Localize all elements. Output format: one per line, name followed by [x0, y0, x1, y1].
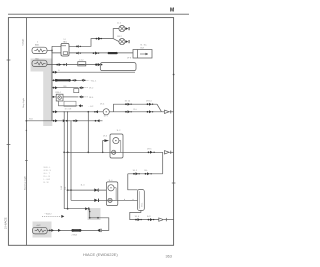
- harness vertical 1: [63, 112, 65, 209]
- branch row 5 illumination lamp: [52, 96, 56, 98]
- connector pair on relay upper pin: [76, 45, 81, 48]
- stop light through row: [65, 151, 162, 153]
- row1 resistor box: [78, 62, 86, 66]
- row3 end connector: [81, 79, 85, 82]
- bulb L2 connector: [126, 40, 130, 43]
- fuse F2 TAIL on junction block: [32, 60, 47, 66]
- bottom row pair 2: [148, 218, 155, 221]
- svg-text:2 HIACE: 2 HIACE: [4, 217, 8, 229]
- branch row 3 wire: [52, 79, 81, 81]
- LH inner wire: [118, 141, 121, 153]
- node on left bus A: [26, 120, 28, 122]
- high mount stop bulb: [103, 109, 109, 115]
- node on left bus B: [26, 130, 27, 131]
- rail upper pair 1: [125, 103, 132, 106]
- through line tick marks: [124, 199, 126, 200]
- svg-text:2 W-B: 2 W-B: [72, 235, 78, 237]
- wire FL1 to relay: [47, 46, 61, 53]
- branch row 1 tail feed wire: [47, 64, 100, 66]
- back-up row from harness: [64, 208, 90, 210]
- fusible link FL1: [32, 47, 47, 53]
- taillight relay R1: [61, 43, 69, 56]
- bulb L1 connector: [126, 27, 130, 30]
- left ground bus wire: [25, 18, 27, 246]
- row2 connector at bus: [53, 71, 58, 74]
- cross row connector C: [95, 119, 100, 122]
- connector pair on lower run: [93, 52, 100, 55]
- frame tick left lower: [7, 144, 11, 146]
- RH lower connector: [94, 199, 99, 202]
- page frame: [8, 18, 173, 246]
- junction connector flat box: [64, 101, 76, 106]
- cross row connector at bus: [53, 119, 58, 122]
- svg-text:G-L : T: G-L : T: [44, 173, 51, 175]
- rail lower pair 1: [125, 110, 132, 113]
- svg-text:Taillight: Taillight: [21, 38, 24, 46]
- integration relay outline box: [100, 63, 136, 71]
- feed row RH lower through: [71, 199, 138, 201]
- row1 connector 2: [95, 63, 102, 66]
- branch row 4 wire: [52, 87, 78, 89]
- frame tick left upper: [7, 59, 11, 61]
- row4 end connector: [79, 86, 83, 89]
- svg-text:B-R: B-R: [147, 216, 151, 218]
- branch row stop cross wire: [26, 120, 102, 122]
- row3 leader: [86, 79, 90, 81]
- merge vertical right: [128, 152, 163, 174]
- strip feed elbow: [128, 174, 138, 190]
- branch row stop feed wire: [52, 111, 103, 113]
- stop row connector at bus: [53, 110, 58, 113]
- svg-text:~ W-B 2: ~ W-B 2: [44, 214, 52, 216]
- FL3 end connector: [97, 229, 100, 232]
- row3 mid connector: [72, 79, 77, 82]
- row1 connector b: [63, 63, 67, 66]
- bottom row pair 1: [135, 218, 142, 221]
- rear combination light LH box: [110, 134, 123, 158]
- svg-text:1H 14: 1H 14: [146, 101, 152, 103]
- svg-text:B-R: B-R: [141, 47, 145, 49]
- svg-text:~ G 2: ~ G 2: [88, 106, 94, 108]
- lamp feed arrow: [104, 139, 109, 142]
- row1 connector: [56, 63, 61, 66]
- row5 wire out: [63, 96, 78, 98]
- svg-text:1G 14: 1G 14: [125, 101, 132, 103]
- facing connector at U end: [100, 229, 103, 232]
- row 174 pair 2: [145, 172, 152, 175]
- bus tick: [25, 160, 28, 162]
- svg-text:363: 363: [166, 254, 172, 258]
- row4 junction box: [74, 89, 79, 93]
- FL3 connector: [49, 229, 54, 232]
- lamp box drop: [59, 101, 78, 106]
- shaded connector block bottom-middle: [88, 208, 101, 220]
- svg-text:R-L : B: R-L : B: [44, 176, 51, 178]
- node FL1 output: [51, 50, 53, 52]
- ground path in connector block: [90, 209, 109, 231]
- rail lower pair 2: [147, 110, 154, 113]
- svg-text:HIACE (EWD622E): HIACE (EWD622E): [83, 252, 118, 257]
- row3 connector at bus: [53, 79, 58, 82]
- svg-text:L : G-R: L : G-R: [44, 179, 51, 181]
- svg-text:1J: 1J: [63, 39, 65, 41]
- row4 connector at bus: [53, 86, 58, 89]
- svg-text:~ R-L 1: ~ R-L 1: [90, 80, 98, 82]
- through row nodes: [63, 151, 65, 153]
- diode box component: [133, 50, 152, 59]
- row5 leader: [84, 96, 89, 98]
- harness vertical 2: [67, 112, 69, 209]
- page out arrow mid: [165, 151, 174, 154]
- illumination lamp box: [56, 94, 63, 101]
- svg-text:1K 4 1E: 1K 4 1E: [65, 108, 72, 110]
- row5 connector at bus: [53, 96, 55, 98]
- cross row inline pair B: [73, 119, 78, 122]
- legend text block: [44, 167, 52, 184]
- relay output wire upper: [69, 39, 113, 47]
- svg-text:W-B : L: W-B : L: [44, 167, 52, 169]
- stop row end connector: [94, 110, 98, 113]
- svg-text:Back-Up Light: Back-Up Light: [23, 176, 26, 190]
- svg-text:R/B 4: R/B 4: [56, 92, 62, 94]
- svg-text:G-W: G-W: [61, 186, 63, 190]
- right rail split: [109, 104, 164, 112]
- relay output wire lower: [69, 52, 133, 54]
- shaded block bottom-left: [33, 222, 52, 238]
- frame tick right lower: [172, 182, 176, 184]
- back-up switch leader: [42, 215, 61, 217]
- junction block shaded band: [31, 59, 53, 127]
- lamp feed split: [113, 29, 119, 42]
- RH inner wire: [114, 188, 116, 201]
- FL3 arrow: [58, 229, 61, 232]
- feed row RH upper: [68, 189, 107, 191]
- harness top nodes: [64, 111, 65, 112]
- FL3 output wire: [47, 229, 97, 231]
- stop row junction node: [87, 111, 89, 113]
- row6 end connector: [78, 104, 82, 107]
- rear combination light RH box: [106, 182, 117, 206]
- row 174 pair 1: [133, 172, 140, 175]
- page out arrow upper: [165, 110, 174, 113]
- harness vertical 3: [70, 121, 72, 201]
- connector pair on upper run: [96, 37, 102, 40]
- svg-text:B 11: B 11: [141, 203, 143, 207]
- svg-text:B : W: B : W: [44, 182, 49, 184]
- main feed bus: [51, 50, 53, 121]
- row4 leader: [84, 87, 89, 89]
- FL3 inline dark pair: [71, 229, 81, 232]
- connector strip box: [138, 190, 145, 211]
- cross row inline pair A: [63, 119, 68, 122]
- branch row 2 wire: [52, 71, 135, 73]
- inline connector block dark: [108, 52, 118, 54]
- svg-text:M: M: [170, 8, 174, 14]
- frame tick right upper: [173, 74, 175, 76]
- rail upper pair 2: [147, 103, 154, 106]
- through row pair: [148, 151, 155, 154]
- connector pair on relay lower pin: [76, 52, 81, 55]
- row3 inline connector pair: [55, 79, 70, 82]
- svg-text:N . Na: N . Na: [141, 45, 148, 47]
- leader arrow: [61, 215, 64, 218]
- RH upper connector: [94, 188, 98, 191]
- clearance light bulb L2: [119, 39, 125, 45]
- row5 end connector: [79, 95, 83, 98]
- page out arrow bottom: [159, 218, 174, 221]
- fusible link FL3 bottom: [32, 227, 47, 234]
- stop drop vertical: [87, 112, 89, 153]
- header rule: [8, 13, 189, 15]
- clearance light bulb L1: [119, 26, 125, 32]
- svg-text:Stop Light: Stop Light: [22, 98, 25, 108]
- bottom right row elbow: [130, 211, 159, 220]
- bulb feed jog: [103, 141, 105, 153]
- back-up row connector: [85, 207, 89, 210]
- svg-text:G-W : S: G-W : S: [44, 170, 52, 172]
